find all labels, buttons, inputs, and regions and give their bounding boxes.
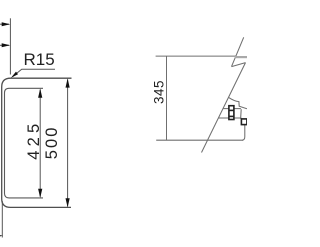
arrow down 500: [66, 198, 70, 207]
arrow up 425: [38, 89, 42, 98]
left cropped dim line 2: [0, 44, 9, 46]
dim 425 line: [39, 90, 41, 197]
break diagonal B: [202, 63, 246, 153]
R15 leader: [13, 69, 55, 76]
left extension line top: [9, 18, 11, 74]
dim 345 line: [166, 56, 168, 140]
svg-text:500: 500: [43, 125, 61, 159]
arrow down 425: [38, 189, 42, 198]
dimension lines: [0, 18, 68, 237]
svg-text:425: 425: [25, 120, 43, 160]
break diagonal A: [232, 37, 244, 66]
svg-text:345: 345: [152, 80, 167, 104]
arrow up 500: [66, 78, 70, 87]
top surface line continuation (thick light, beyond break): [235, 56, 247, 58]
outer outline of basin: [2, 78, 72, 207]
small fitting rect: [241, 119, 247, 125]
clamp block: [229, 106, 234, 120]
arrow right (cropped dim 2): [2, 43, 11, 47]
dim 345: [166, 56, 168, 140]
vertical stem to small rect: [240, 109, 243, 119]
svg-text:R15: R15: [24, 50, 55, 69]
lower connector line right: [234, 117, 242, 119]
arrow right (cropped dim 1): [2, 22, 11, 26]
top surface line: [156, 55, 236, 57]
break zig: [232, 63, 246, 67]
upper connector line right: [234, 108, 241, 110]
R15 leader arrow: [11, 72, 18, 78]
drain line below small rect: [242, 125, 245, 141]
bottom surface line: [156, 139, 243, 141]
bottom-left extension line: [1, 201, 3, 238]
dim 500 line: [67, 79, 69, 206]
lower connector line left: [218, 117, 229, 119]
rim curve: [229, 97, 247, 108]
arrow right (bottom cropped dim): [0, 234, 3, 237]
left cropped dim line 1: [0, 23, 9, 25]
inner outline of basin: [5, 88, 44, 198]
arrowheads (filled): [0, 22, 70, 237]
upper connector line left: [223, 108, 229, 110]
